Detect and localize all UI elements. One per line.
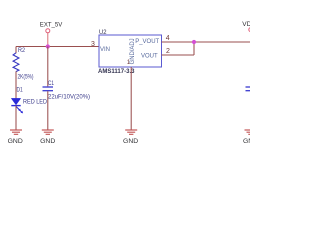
resistor R2 [13, 48, 33, 80]
junction dot at EXT_5V tap [46, 44, 50, 48]
wire pin2 vertical up to net [193, 42, 195, 55]
svg-text:P_VOUT: P_VOUT [135, 39, 159, 45]
power flag EXT_5V [40, 22, 63, 47]
svg-text:3: 3 [91, 41, 95, 48]
svg-text:22uF/10V(20%): 22uF/10V(20%) [48, 94, 90, 100]
svg-text:VDD33: VDD33 [242, 21, 250, 28]
svg-text:VOUT: VOUT [141, 53, 158, 59]
ground under D1 [8, 130, 23, 145]
wire C1 to GND [47, 91, 49, 130]
ground at right edge (clipped) [243, 130, 258, 145]
wire R2 top stub [15, 47, 17, 54]
wire R2 to D1 [15, 71, 17, 98]
capacitor C2 (clipped at right edge) [246, 87, 257, 91]
svg-text:GND: GND [8, 138, 23, 145]
wire pin4 to right edge (net VDD) [162, 41, 251, 43]
wire U2 GND pin down [130, 67, 132, 130]
ground under C1 [40, 130, 55, 145]
svg-text:D1: D1 [17, 87, 24, 93]
regulator U2 AMS1117-3.3 [91, 29, 170, 75]
svg-text:2K(5%): 2K(5%) [18, 74, 34, 80]
svg-text:4: 4 [166, 35, 170, 42]
svg-text:EXT_5V: EXT_5V [40, 22, 63, 29]
wire D1 to GND [15, 106, 17, 130]
svg-text:GND: GND [123, 138, 138, 145]
svg-text:R2: R2 [18, 48, 26, 54]
svg-text:RED LED: RED LED [23, 99, 48, 105]
junction dot pin2/pin4 [192, 40, 196, 44]
wire EXT_5V junction to C1 [47, 47, 49, 87]
svg-text:C1: C1 [48, 81, 55, 87]
wire pin2 horizontal [162, 54, 195, 56]
svg-text:VIN: VIN [100, 47, 110, 53]
svg-text:GND: GND [243, 138, 250, 145]
ground under U2 [123, 130, 138, 145]
power flag VDD33 (clipped at right edge) [242, 21, 263, 31]
svg-text:2: 2 [166, 48, 170, 55]
LED D1 [11, 87, 47, 113]
svg-text:AMS1117-3.3: AMS1117-3.3 [98, 69, 135, 75]
svg-text:GND: GND [40, 138, 55, 145]
capacitor C1 [43, 81, 91, 100]
wire main horizontal net EXT_5V [16, 46, 99, 48]
